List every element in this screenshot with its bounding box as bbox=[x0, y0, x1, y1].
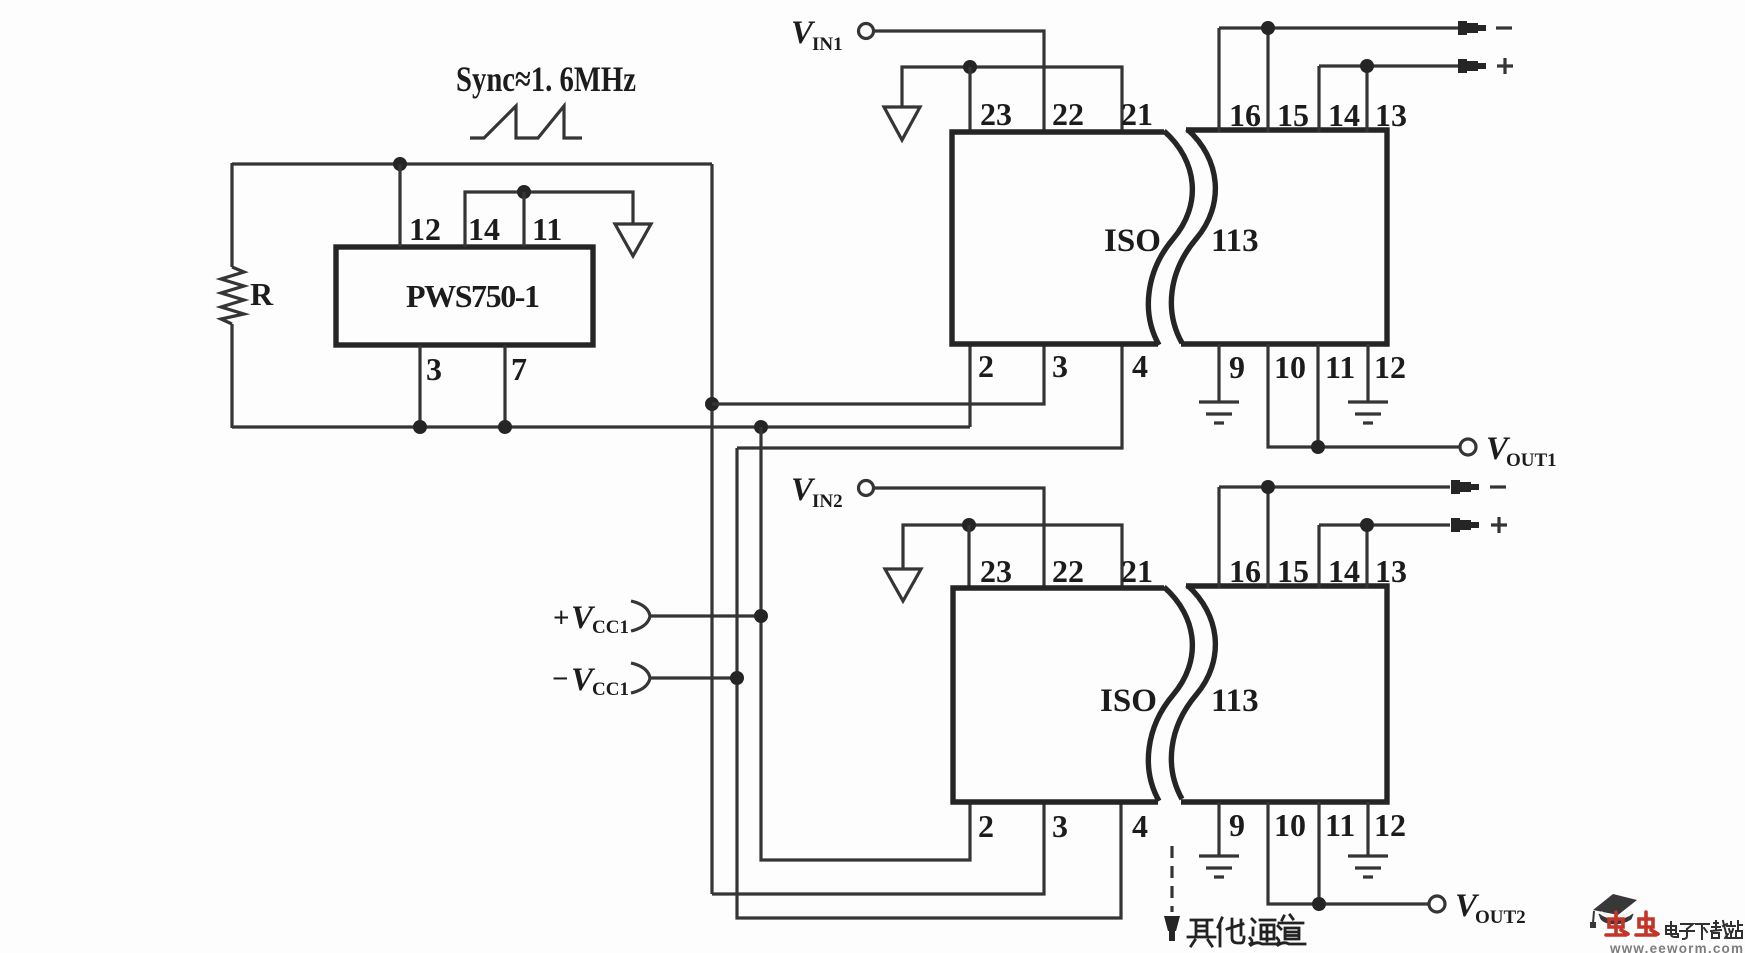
wire pin 12 stub bbox=[398, 164, 401, 247]
svg-text:4: 4 bbox=[1132, 348, 1148, 384]
svg-text:10: 10 bbox=[1274, 349, 1306, 385]
ground symbol triangle input chip1 bbox=[884, 107, 920, 140]
U2 left half torn edge wave bbox=[1148, 131, 1192, 345]
wire minus output line chip2 bbox=[1219, 485, 1450, 488]
isolation amplifier U2 ISO113 #1 left half box bbox=[952, 132, 1164, 344]
wire plus output line chip1 bbox=[1319, 64, 1458, 67]
svg-text:3: 3 bbox=[1052, 808, 1068, 844]
glyph 其 bbox=[1188, 920, 1215, 946]
terminal Vin2 circle bbox=[859, 481, 874, 496]
wire pin 23 stub chip2 bbox=[967, 525, 970, 588]
wire dashed other-channels indicator bbox=[1170, 846, 1173, 912]
ground symbol pin12 chip1 bbox=[1348, 402, 1388, 423]
svg-text:2: 2 bbox=[978, 808, 994, 844]
wire pin14 chip1 up bbox=[1317, 66, 1320, 132]
watermark 虫虫 red glyphs bbox=[1606, 912, 1658, 935]
ground symbol pin9 chip1 bbox=[1199, 402, 1239, 423]
arrow other-channels down bbox=[1164, 916, 1180, 931]
svg-text:21: 21 bbox=[1121, 96, 1153, 132]
svg-text:7: 7 bbox=[511, 351, 527, 387]
wire input ground bus chip2 (pins 23,21) bbox=[903, 525, 1122, 588]
polarity minus sign chip1 bbox=[1496, 26, 1512, 29]
glyph 电 bbox=[1666, 922, 1678, 937]
svg-text:CC1: CC1 bbox=[592, 679, 629, 700]
glyph 下 bbox=[1696, 924, 1709, 939]
wire input ground bus chip1 (pins 23,21) bbox=[902, 67, 1122, 132]
terminal -Vcc1 chevron bbox=[631, 663, 650, 693]
wire -Vcc1 lead bbox=[650, 676, 737, 679]
svg-text:22: 22 bbox=[1052, 96, 1084, 132]
op-amp U1 PWS750-1 box bbox=[336, 247, 593, 345]
terminal Vin1 circle bbox=[859, 24, 874, 39]
polarity plus sign chip2 bbox=[1491, 517, 1507, 533]
svg-text:IN2: IN2 bbox=[812, 491, 843, 512]
glyph 他 bbox=[1218, 918, 1244, 946]
wire pin 3 stub bbox=[418, 345, 421, 427]
wire pin12 chip2 to ground bbox=[1366, 802, 1369, 856]
svg-text:OUT2: OUT2 bbox=[1475, 907, 1526, 928]
wire pin9 chip2 to ground bbox=[1217, 802, 1220, 856]
svg-text:OUT1: OUT1 bbox=[1506, 450, 1557, 471]
wire plus output line chip2 bbox=[1319, 523, 1450, 526]
watermark cap lower band bbox=[1599, 914, 1633, 924]
wire bottom rail to ISO113#1 pin2 bbox=[232, 425, 970, 428]
node junction pin11 Vout2 line bbox=[1312, 897, 1326, 911]
wire Vin1 to pin 22 bbox=[874, 31, 1044, 132]
arrow head minus output chip1 bbox=[1458, 21, 1486, 35]
U3 left half torn edge wave bbox=[1148, 587, 1192, 801]
node junction -Vcc1 bbox=[730, 671, 744, 685]
svg-text:3: 3 bbox=[426, 351, 442, 387]
svg-text:ISO: ISO bbox=[1100, 683, 1157, 719]
isolation amplifier U3 ISO113 #2 left half box bbox=[953, 588, 1164, 802]
wire right rail of oscillator loop (sync bus) bbox=[710, 164, 713, 894]
node junction pin15 minus line chip2 bbox=[1261, 480, 1275, 494]
arrow head plus output chip1 bbox=[1458, 59, 1486, 73]
polarity minus sign chip2 bbox=[1490, 485, 1506, 488]
svg-text:14: 14 bbox=[468, 211, 500, 247]
wire pin12 chip1 to ground bbox=[1366, 344, 1369, 402]
node junction pin 3 on bottom rail bbox=[413, 420, 427, 434]
terminal Vout2 circle bbox=[1429, 896, 1445, 912]
svg-text:15: 15 bbox=[1277, 97, 1309, 133]
svg-text:4: 4 bbox=[1132, 808, 1148, 844]
node junction at pin 11 bbox=[517, 185, 531, 199]
svg-text:11: 11 bbox=[1325, 349, 1355, 385]
ground symbol triangle input chip2 bbox=[885, 569, 921, 601]
wire pin16 chip2 up bbox=[1217, 487, 1220, 588]
svg-text:113: 113 bbox=[1211, 223, 1259, 259]
wire ISO113#1 pin2 stub to bottom rail bbox=[968, 345, 971, 427]
glyph 站 bbox=[1727, 921, 1742, 938]
svg-text:13: 13 bbox=[1375, 553, 1407, 589]
wire sync bus to chip2 pin3 bottom jog bbox=[712, 803, 1044, 894]
wire pin15 chip1 up bbox=[1266, 28, 1269, 132]
watermark graduation cap board bbox=[1593, 894, 1637, 915]
glyph 道 bbox=[1277, 915, 1305, 945]
wire pin 7 stub bbox=[503, 345, 506, 427]
terminal Vout1 circle bbox=[1460, 439, 1476, 455]
wire pin10 chip2 to Vout2 bbox=[1268, 802, 1428, 904]
svg-text:21: 21 bbox=[1121, 553, 1153, 589]
node junction +Vcc bus on bottom rail bbox=[754, 420, 768, 434]
watermark cap white stripe bbox=[1601, 911, 1632, 916]
svg-text:IN1: IN1 bbox=[812, 34, 843, 55]
node junction +Vcc1 bbox=[754, 609, 768, 623]
svg-text:ISO: ISO bbox=[1104, 223, 1161, 259]
wire left rail lower segment bbox=[230, 324, 233, 428]
ground symbol pin12 chip2 bbox=[1348, 856, 1388, 877]
node junction pin23 chip2 bbox=[962, 518, 976, 532]
svg-text:23: 23 bbox=[980, 553, 1012, 589]
wire Vin2 to pin 22 chip2 bbox=[874, 488, 1044, 588]
svg-text:10: 10 bbox=[1274, 807, 1306, 843]
wire pin10 chip1 to Vout1 bbox=[1268, 344, 1459, 447]
svg-text:23: 23 bbox=[980, 96, 1012, 132]
svg-text:22: 22 bbox=[1052, 553, 1084, 589]
ground symbol pin9 chip2 bbox=[1199, 856, 1239, 877]
polarity plus sign chip1 bbox=[1497, 58, 1513, 74]
svg-text:−: − bbox=[552, 663, 569, 695]
svg-text:15: 15 bbox=[1277, 553, 1309, 589]
label 其他通道 (other channels) bbox=[1188, 915, 1305, 946]
node junction pin 7 on bottom rail bbox=[498, 420, 512, 434]
wire pin11 chip2 stub bbox=[1317, 802, 1320, 904]
glyph 虫 1 bbox=[1606, 912, 1628, 935]
svg-text:16: 16 bbox=[1229, 553, 1261, 589]
wire ISO113#1 pin3 connection bbox=[712, 345, 1044, 404]
wire left rail upper segment bbox=[230, 163, 233, 267]
node junction pin13 plus line chip2 bbox=[1360, 518, 1374, 532]
svg-text:12: 12 bbox=[1374, 807, 1406, 843]
wire pin14 chip2 up bbox=[1317, 525, 1320, 588]
wire ISO113#1 pin4 connection bbox=[737, 345, 1122, 448]
svg-text:9: 9 bbox=[1229, 349, 1245, 385]
wire +Vcc1 lead bbox=[650, 614, 761, 617]
wire pin 14 up and over to ground bbox=[465, 192, 633, 247]
arrow head minus output chip2 bbox=[1451, 480, 1479, 494]
arrow head plus output chip2 bbox=[1451, 518, 1479, 532]
glyph 载 bbox=[1711, 921, 1728, 938]
wire pin9 chip1 to ground bbox=[1217, 344, 1220, 402]
svg-text:11: 11 bbox=[532, 211, 562, 247]
wire top rail of oscillator loop bbox=[232, 162, 712, 165]
wire pin16 chip1 up bbox=[1217, 28, 1220, 132]
svg-text:www.eeworm.com: www.eeworm.com bbox=[1609, 941, 1743, 953]
resistor R bbox=[221, 267, 244, 324]
wire pin11 chip1 stub bbox=[1316, 344, 1319, 447]
node junction pin15 minus line bbox=[1261, 21, 1275, 35]
watermark 电子下载站 glyphs bbox=[1666, 921, 1742, 939]
svg-text:3: 3 bbox=[1052, 348, 1068, 384]
node junction pin11 Vout1 line bbox=[1311, 440, 1325, 454]
wire pin13 chip1 up bbox=[1365, 66, 1368, 132]
svg-text:12: 12 bbox=[1374, 349, 1406, 385]
wire +Vcc vertical bus bbox=[761, 427, 970, 860]
wire -Vcc vertical bus bbox=[737, 448, 1121, 918]
svg-text:+: + bbox=[553, 602, 570, 634]
glyph 子 bbox=[1680, 924, 1694, 939]
svg-text:CC1: CC1 bbox=[592, 617, 629, 638]
svg-text:R: R bbox=[250, 276, 274, 312]
node junction sync bus to ISO113#1 pin3 bbox=[705, 397, 719, 411]
svg-text:2: 2 bbox=[978, 348, 994, 384]
U3 right half torn edge wave bbox=[1171, 585, 1215, 799]
U2 right half torn edge wave bbox=[1171, 129, 1215, 343]
wire pin15 chip2 up bbox=[1266, 487, 1269, 588]
ground symbol triangle near PWS750-1 bbox=[615, 224, 651, 256]
svg-text:12: 12 bbox=[409, 211, 441, 247]
node junction pin23 chip1 bbox=[963, 60, 977, 74]
svg-text:11: 11 bbox=[1325, 807, 1355, 843]
svg-text:PWS750-1: PWS750-1 bbox=[406, 278, 540, 314]
glyph 虫 2 bbox=[1636, 912, 1658, 935]
svg-text:14: 14 bbox=[1328, 97, 1360, 133]
isolation amplifier U3 ISO113 #2 right half box bbox=[1181, 586, 1387, 802]
wire minus output line chip1 bbox=[1219, 26, 1458, 29]
svg-text:9: 9 bbox=[1229, 807, 1245, 843]
glyph 通 bbox=[1250, 919, 1277, 945]
svg-text:13: 13 bbox=[1375, 97, 1407, 133]
svg-text:Sync≈1. 6MHz: Sync≈1. 6MHz bbox=[456, 59, 636, 99]
terminal +Vcc1 chevron bbox=[631, 601, 650, 631]
node junction pin13 plus line bbox=[1360, 59, 1374, 73]
node junction at pin12 top rail bbox=[393, 157, 407, 171]
wire pin 11 stub bbox=[522, 192, 525, 247]
svg-text:16: 16 bbox=[1229, 97, 1261, 133]
svg-text:14: 14 bbox=[1328, 553, 1360, 589]
watermark cap tassel bbox=[1593, 911, 1594, 923]
svg-text:113: 113 bbox=[1211, 683, 1259, 719]
isolation amplifier U2 ISO113 #1 right half box bbox=[1181, 130, 1387, 344]
wire pin13 chip2 up bbox=[1365, 525, 1368, 588]
wire pin 23 stub chip1 bbox=[968, 67, 971, 132]
sawtooth waveform symbol bbox=[470, 106, 582, 138]
